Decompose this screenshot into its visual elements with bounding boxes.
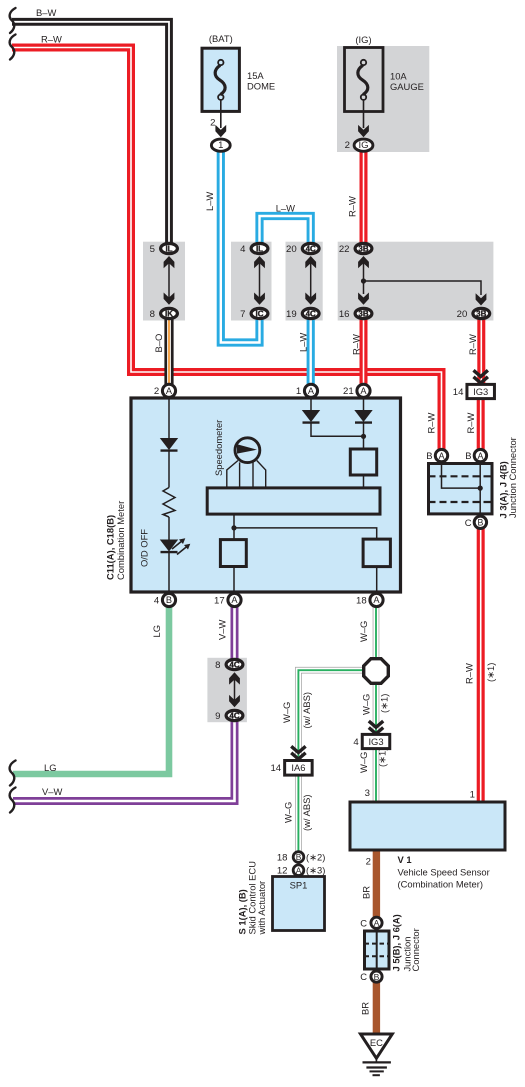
svg-text:L–W: L–W bbox=[298, 333, 309, 352]
speedometer legs bbox=[227, 461, 238, 488]
svg-text:3B: 3B bbox=[358, 310, 368, 319]
arrow double chevron into IG3 bbox=[474, 370, 488, 383]
svg-text:A: A bbox=[360, 386, 367, 396]
svg-text:IK: IK bbox=[165, 310, 173, 319]
svg-text:8: 8 bbox=[150, 309, 155, 320]
svg-text:A: A bbox=[296, 865, 302, 875]
connector 20 3B bbox=[457, 308, 490, 320]
svg-text:BR: BR bbox=[360, 1002, 371, 1015]
svg-text:20: 20 bbox=[286, 244, 297, 255]
arrow pair IL-IK bbox=[164, 256, 175, 268]
meter wire square S2 to pin 18A bbox=[376, 567, 378, 593]
svg-text:A: A bbox=[374, 918, 380, 928]
node 1 oval bbox=[211, 139, 230, 151]
ground bar 1 bbox=[363, 1061, 391, 1063]
svg-text:20: 20 bbox=[457, 309, 468, 320]
connector 14 IA6 bbox=[270, 761, 312, 776]
connector block 4C/4C lower background bbox=[207, 658, 247, 722]
svg-text:1: 1 bbox=[470, 790, 475, 801]
meter wire square S1 to pin 17A bbox=[233, 567, 235, 593]
ground bar 3 bbox=[370, 1070, 384, 1072]
svg-text:2: 2 bbox=[210, 118, 215, 129]
fuse 15A DOME (BAT) box bbox=[202, 48, 239, 111]
svg-text:7: 7 bbox=[240, 309, 245, 320]
meter square S3 bbox=[350, 449, 376, 475]
svg-text:V–W: V–W bbox=[217, 620, 228, 640]
fuse 15A DOME element bbox=[215, 60, 225, 100]
LED O/D OFF indicator bbox=[160, 538, 191, 554]
J5 pin B bbox=[371, 971, 382, 982]
svg-text:W–G: W–G bbox=[361, 694, 372, 715]
svg-text:4C: 4C bbox=[306, 245, 316, 254]
arrow into node 1 bbox=[215, 125, 226, 137]
svg-text:(BAT): (BAT) bbox=[209, 33, 233, 44]
svg-text:(w/ ABS): (w/ ABS) bbox=[301, 795, 312, 831]
connector 7 IC bbox=[240, 308, 268, 320]
connector block IL/IK background bbox=[143, 242, 185, 321]
meter wire pin 1A to diode D2 bbox=[310, 398, 312, 411]
arrow double chevron into IA6 bbox=[291, 746, 305, 759]
svg-text:with Actuator: with Actuator bbox=[256, 881, 267, 936]
wire W-G meter pin 18A to octagon junction bbox=[373, 607, 380, 657]
svg-text:18: 18 bbox=[356, 595, 367, 606]
resistor R1 bbox=[163, 488, 175, 518]
svg-text:B: B bbox=[296, 852, 302, 862]
svg-text:O/D OFF: O/D OFF bbox=[139, 529, 150, 567]
J5 pin A bbox=[371, 917, 382, 928]
wire W-G octagon junction to V1 pin 3 bbox=[373, 684, 380, 801]
wire R-W junction connector pin B to V1 pin 1 bbox=[477, 528, 485, 801]
svg-text:14: 14 bbox=[270, 763, 281, 774]
svg-text:21: 21 bbox=[343, 386, 354, 397]
combination meter C11(A),C18(B) box bbox=[131, 398, 401, 592]
diode D1 bbox=[160, 438, 178, 451]
svg-text:17: 17 bbox=[214, 595, 225, 606]
svg-text:W–G: W–G bbox=[358, 621, 369, 642]
svg-text:(Combination Meter): (Combination Meter) bbox=[398, 879, 483, 890]
wire R-W connector 20 3B to IG3 bbox=[477, 320, 485, 386]
meter pin 18 A bbox=[356, 593, 383, 606]
arrow double chevron into IG3 lower bbox=[369, 721, 383, 734]
svg-text:L–W: L–W bbox=[276, 203, 295, 214]
svg-text:IC: IC bbox=[256, 310, 264, 319]
svg-text:(w/ ABS): (w/ ABS) bbox=[301, 692, 312, 728]
svg-text:C: C bbox=[465, 517, 472, 528]
node IG oval bbox=[354, 139, 373, 151]
junction connector J3(A),J4(B) box bbox=[429, 464, 493, 514]
svg-text:B–W: B–W bbox=[36, 7, 56, 18]
svg-text:(IG): (IG) bbox=[355, 34, 371, 45]
speedometer gauge bbox=[235, 438, 260, 463]
svg-text:(∗1): (∗1) bbox=[485, 663, 496, 682]
wire L-W fuse output 1 to connector 7 IC bbox=[221, 150, 260, 343]
wire B-W from left break to connector 5 IL bbox=[12, 22, 169, 244]
diode D2 bbox=[302, 410, 320, 423]
svg-text:4: 4 bbox=[154, 595, 160, 606]
wire V-W connector 9 4C to left break bbox=[13, 722, 235, 802]
meter pin 21 A bbox=[343, 384, 370, 397]
svg-text:V–W: V–W bbox=[42, 786, 62, 797]
meter wire pin 21A to diode D3 bbox=[363, 398, 365, 411]
svg-text:LG: LG bbox=[44, 762, 57, 773]
svg-text:R–W: R–W bbox=[41, 33, 62, 44]
connector 9 4C bbox=[215, 710, 243, 722]
meter square S1 bbox=[220, 540, 246, 567]
svg-text:4: 4 bbox=[240, 244, 246, 255]
svg-text:15A: 15A bbox=[247, 70, 264, 81]
fuse 10A GAUGE (IG) box bbox=[345, 48, 384, 112]
J3 internal wiring bbox=[442, 464, 481, 489]
wire V-W meter pin 17A to connector 8 4C bbox=[231, 607, 239, 659]
svg-text:18: 18 bbox=[277, 852, 288, 863]
break symbol B-W bbox=[10, 8, 16, 33]
connector block IL/IC background bbox=[231, 242, 272, 321]
svg-text:C: C bbox=[360, 971, 367, 982]
svg-text:16: 16 bbox=[339, 309, 350, 320]
skid control ECU SP1 box bbox=[273, 877, 325, 931]
meter wire LED to pin 4B bbox=[168, 553, 170, 593]
wire BR junction connector J5/J6 to ground EC bbox=[373, 982, 380, 1034]
arrow pair 3B-3B with branch bbox=[358, 256, 369, 268]
svg-text:B: B bbox=[426, 450, 432, 461]
svg-text:A: A bbox=[231, 595, 238, 605]
diode D3 bbox=[354, 410, 372, 423]
svg-text:IL: IL bbox=[165, 245, 172, 254]
connector 8 IK bbox=[150, 308, 178, 320]
arrow into node IG bbox=[358, 125, 369, 137]
meter branch wire to square S2 bbox=[234, 528, 377, 540]
wire W-G octagon junction to skid control ECU bbox=[298, 670, 363, 851]
svg-text:J 5(B), J 6(A): J 5(B), J 6(A) bbox=[391, 914, 402, 971]
svg-text:A: A bbox=[308, 386, 315, 396]
svg-text:Junction Connector: Junction Connector bbox=[507, 437, 518, 518]
svg-text:C: C bbox=[360, 917, 367, 928]
svg-text:BR: BR bbox=[361, 886, 372, 899]
svg-text:R–W: R–W bbox=[464, 663, 475, 684]
wire R-W fuse IG to connector 22 3B bbox=[360, 150, 368, 243]
meter pin 4 B bbox=[154, 593, 176, 606]
svg-text:A: A bbox=[373, 595, 380, 605]
svg-text:EC: EC bbox=[370, 1037, 383, 1048]
svg-text:R–W: R–W bbox=[426, 413, 437, 434]
wire R-W IG3 to junction connector pin A bbox=[477, 398, 485, 450]
svg-text:2: 2 bbox=[154, 386, 159, 397]
connector 20 4C bbox=[286, 243, 319, 255]
svg-text:12: 12 bbox=[277, 866, 288, 877]
wire B-O connector 8 IK to meter pin 2A bbox=[164, 320, 173, 385]
wire LG meter pin 4B to left break bbox=[13, 607, 169, 774]
svg-text:IL: IL bbox=[256, 245, 263, 254]
connector block 4C/4C background bbox=[286, 242, 323, 321]
svg-text:W–G: W–G bbox=[281, 702, 292, 723]
svg-text:19: 19 bbox=[286, 309, 297, 320]
svg-text:3B: 3B bbox=[358, 245, 368, 254]
meter wire bar to square S1 bbox=[233, 515, 235, 541]
svg-text:R–W: R–W bbox=[465, 413, 476, 434]
svg-text:5: 5 bbox=[150, 244, 155, 255]
V1 vehicle speed sensor box bbox=[350, 802, 505, 850]
svg-text:C11(A), C18(B): C11(A), C18(B) bbox=[105, 515, 116, 580]
wire L-W connector 19 4C to meter pin 1A bbox=[307, 320, 315, 385]
ground stem bbox=[375, 1058, 377, 1062]
meter wire square S3 to bar bbox=[363, 475, 365, 488]
connector 19 4C bbox=[286, 308, 319, 320]
svg-text:DOME: DOME bbox=[247, 81, 275, 92]
svg-text:LG: LG bbox=[151, 625, 162, 638]
meter wire resistor to LED bbox=[168, 517, 170, 540]
ground bar 4 bbox=[373, 1074, 380, 1076]
svg-text:(∗1): (∗1) bbox=[379, 694, 390, 713]
svg-text:(∗1): (∗1) bbox=[377, 748, 388, 767]
SP1 pin 18 B bbox=[293, 852, 304, 863]
node branch dot bbox=[231, 525, 236, 530]
svg-text:9: 9 bbox=[215, 711, 220, 722]
svg-text:B: B bbox=[477, 518, 483, 528]
svg-text:R–W: R–W bbox=[467, 334, 478, 355]
svg-text:(∗2): (∗2) bbox=[306, 851, 325, 862]
svg-text:R–W: R–W bbox=[347, 196, 358, 217]
svg-text:B: B bbox=[374, 972, 380, 982]
meter pin 17 A bbox=[214, 593, 241, 606]
J3 dashed line upper bbox=[429, 475, 493, 477]
fuse 10A GAUGE lead to pin 2 bbox=[363, 100, 365, 128]
svg-text:W–G: W–G bbox=[358, 752, 369, 773]
svg-text:1: 1 bbox=[296, 386, 301, 397]
svg-text:(∗3): (∗3) bbox=[306, 865, 325, 876]
svg-text:B: B bbox=[465, 450, 471, 461]
meter wire from pin 2A to diode bbox=[168, 398, 170, 439]
svg-text:R–W: R–W bbox=[350, 334, 361, 355]
svg-text:GAUGE: GAUGE bbox=[390, 81, 424, 92]
arrow pair 4C-4C bbox=[305, 256, 316, 268]
svg-text:4: 4 bbox=[353, 737, 359, 748]
svg-text:4C: 4C bbox=[306, 310, 316, 319]
svg-text:22: 22 bbox=[339, 244, 350, 255]
svg-text:L–W: L–W bbox=[204, 192, 215, 211]
svg-text:Vehicle Speed Sensor: Vehicle Speed Sensor bbox=[398, 867, 490, 878]
connector 4 IL bbox=[240, 243, 268, 255]
break symbol R-W bbox=[10, 35, 16, 60]
svg-text:3: 3 bbox=[365, 788, 370, 799]
J3 pin A right bbox=[474, 449, 486, 461]
meter wire diodes join bbox=[311, 423, 364, 436]
meter internal bar bbox=[207, 488, 380, 514]
svg-text:SP1: SP1 bbox=[290, 880, 308, 891]
connector 8 4C bbox=[215, 659, 243, 671]
svg-text:A: A bbox=[477, 451, 483, 461]
svg-text:14: 14 bbox=[453, 387, 464, 398]
J3 pin B bottom bbox=[474, 516, 486, 528]
svg-text:A: A bbox=[439, 451, 445, 461]
break symbol V-W bbox=[10, 788, 16, 813]
connector 14 IG3 bbox=[453, 384, 495, 398]
junction octagon bbox=[364, 659, 389, 684]
wire L-W connector 4 IL to connector 20 4C bbox=[260, 216, 311, 243]
connector 4 IG3 bbox=[353, 734, 389, 748]
SP1 pin 12 A bbox=[293, 865, 304, 876]
svg-text:A: A bbox=[166, 386, 173, 396]
connector block 3B background bbox=[338, 242, 494, 321]
svg-text:B–O: B–O bbox=[153, 334, 164, 353]
svg-text:V 1: V 1 bbox=[398, 854, 412, 865]
svg-text:10A: 10A bbox=[390, 71, 407, 82]
break symbol LG bbox=[10, 761, 16, 786]
arrow pair IL-IC bbox=[254, 256, 265, 268]
connector 22 3B bbox=[339, 243, 372, 255]
svg-text:1: 1 bbox=[218, 140, 223, 151]
meter square S2 bbox=[363, 539, 390, 567]
svg-text:4C: 4C bbox=[229, 661, 239, 670]
svg-text:IG3: IG3 bbox=[368, 736, 383, 747]
connector 16 3B bbox=[339, 308, 372, 320]
svg-text:8: 8 bbox=[215, 660, 220, 671]
fuse 15A DOME lead to pin 2 bbox=[220, 100, 222, 128]
svg-text:Combination Meter: Combination Meter bbox=[115, 501, 126, 580]
wire R-W connector 16 3B to meter pin 21A bbox=[360, 320, 368, 385]
meter wire diode to resistor bbox=[168, 451, 170, 488]
svg-text:IG: IG bbox=[358, 140, 368, 151]
svg-text:4C: 4C bbox=[229, 712, 239, 721]
wire R-W from left break to junction connector J3/J4 bbox=[12, 48, 442, 450]
J3 dashed line lower bbox=[429, 501, 493, 503]
meter pin 2 A bbox=[154, 384, 176, 397]
fuse 10A GAUGE element bbox=[358, 60, 368, 100]
svg-text:B: B bbox=[166, 595, 172, 605]
ground bar 2 bbox=[366, 1066, 387, 1068]
svg-text:2: 2 bbox=[345, 140, 350, 151]
ground EC triangle bbox=[361, 1034, 393, 1058]
svg-text:2: 2 bbox=[366, 857, 371, 868]
svg-text:3B: 3B bbox=[476, 310, 486, 319]
wire BR V1 pin 2 to junction connector J5/J6 bbox=[373, 852, 380, 918]
meter pin 1 A bbox=[296, 384, 318, 397]
arrow into connector 20 3B bbox=[476, 293, 487, 305]
connector 5 IL bbox=[150, 243, 178, 255]
junction connector J5(B),J6(A) box bbox=[365, 931, 390, 969]
fuse block IG background bbox=[337, 46, 429, 152]
svg-text:Connector: Connector bbox=[410, 928, 421, 971]
svg-text:Speedometer: Speedometer bbox=[213, 420, 224, 476]
J3 pin A left bbox=[435, 449, 447, 461]
arrow pair 4C-4C lower bbox=[229, 672, 240, 684]
svg-text:W–G: W–G bbox=[283, 802, 294, 823]
svg-text:IG3: IG3 bbox=[473, 386, 488, 397]
svg-text:IA6: IA6 bbox=[291, 762, 305, 773]
